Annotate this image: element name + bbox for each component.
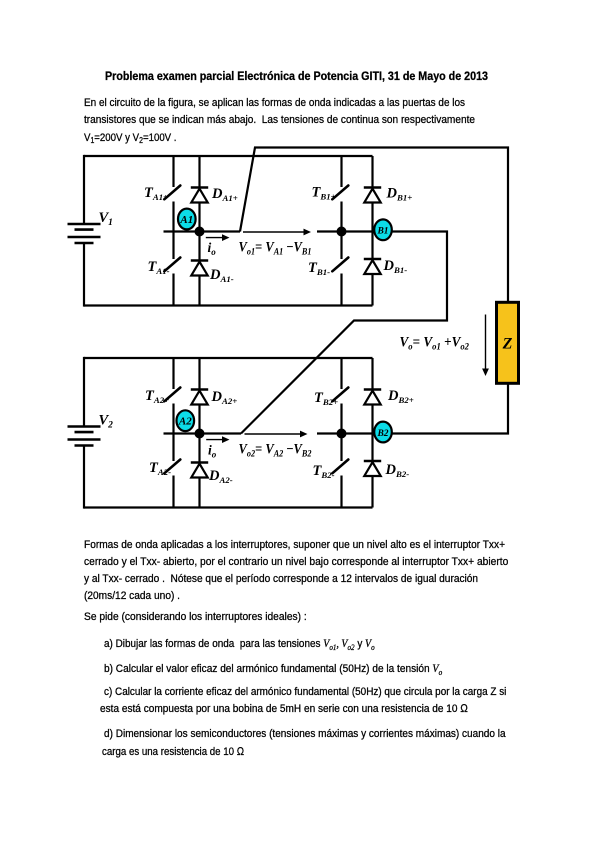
diode D_A1+ <box>191 188 208 203</box>
node A2 <box>177 410 195 431</box>
wire D_A2- lower leg <box>198 478 200 508</box>
node B1 <box>374 219 392 240</box>
label V1 <box>99 210 113 228</box>
svg-text:io: io <box>208 443 217 460</box>
current arrow io bridge 1 <box>206 234 230 241</box>
label Vo2 = VA2 - VB2 <box>239 442 312 460</box>
item c line 1 <box>104 687 506 698</box>
svg-text:DB2-: DB2- <box>385 462 410 479</box>
label T_A1- <box>148 259 170 276</box>
wire T_A2+ upper leg <box>172 358 174 389</box>
wire D_B2- upper leg <box>371 434 373 462</box>
battery V2 <box>68 427 101 446</box>
wire T_B1- lower leg <box>340 274 342 306</box>
diode D_A1- <box>191 261 208 276</box>
diode D_B2+ <box>364 390 381 405</box>
svg-text:TB2+: TB2+ <box>314 390 338 407</box>
svg-text:A2: A2 <box>178 416 192 428</box>
wire D_A1+ upper leg <box>198 156 200 188</box>
item c line 2 <box>100 704 468 715</box>
svg-text:TB1+: TB1+ <box>312 185 336 202</box>
wire output wire B2 left <box>317 432 373 434</box>
svg-text:DA2-: DA2- <box>208 468 233 485</box>
transistor T_A2+ (ideal switch) <box>164 388 180 402</box>
svg-text:V2: V2 <box>99 413 114 431</box>
label i_o bridge 2 <box>208 443 217 460</box>
junction node B2 junction <box>337 429 347 439</box>
se pide line <box>84 612 307 623</box>
node A1 <box>178 209 196 230</box>
junction node B1 junction <box>337 227 347 237</box>
svg-text:Vo1= VA1 −VB1: Vo1= VA1 −VB1 <box>239 240 312 258</box>
wire T_B1+ upper leg <box>340 156 342 187</box>
wire T_A1- upper leg <box>172 232 174 260</box>
svg-text:V1: V1 <box>99 210 113 228</box>
label D_B2- <box>385 462 410 479</box>
label i_o bridge 1 <box>208 240 217 257</box>
wire T_A2- upper leg <box>172 434 174 462</box>
wire top rail bridge 1 <box>84 155 373 157</box>
wire T_B2+ upper leg <box>340 358 342 389</box>
wire D_B1- upper leg <box>371 232 373 260</box>
load Z <box>497 302 519 383</box>
wire left rail lower bridge 2 <box>83 446 85 509</box>
voltage arrow Vo2 <box>245 431 308 438</box>
label V2 <box>99 413 114 431</box>
transistor T_B1+ (ideal switch) <box>332 186 348 200</box>
wire left rail upper bridge 1 <box>83 155 85 225</box>
svg-text:DB2+: DB2+ <box>387 388 414 405</box>
svg-text:DB1+: DB1+ <box>386 186 413 203</box>
wire wire node B2 to load Z <box>391 384 508 434</box>
diode D_A2- <box>191 463 208 478</box>
wire D_B1+ lower leg <box>371 203 373 232</box>
svg-text:Vo= Vo1 +Vo2: Vo= Vo1 +Vo2 <box>400 335 470 353</box>
svg-text:TB2-: TB2- <box>313 463 335 480</box>
junction node A2 junction <box>195 429 205 439</box>
transistor T_B2+ (ideal switch) <box>332 388 348 402</box>
diode D_B1+ <box>364 188 381 203</box>
svg-text:TA1-: TA1- <box>148 259 170 276</box>
junction node A1 junction <box>195 227 205 237</box>
label T_A2+ <box>145 388 169 405</box>
wire D_B2+ lower leg <box>371 405 373 434</box>
label D_A2+ <box>211 389 238 406</box>
voltage arrow Vo1 <box>243 229 311 236</box>
wire D_B2- lower leg <box>371 476 373 508</box>
label T_B2- <box>313 463 335 480</box>
svg-text:DB1-: DB1- <box>383 258 408 275</box>
wire T_A1+ lower leg <box>172 202 174 232</box>
label D_B1+ <box>386 186 413 203</box>
wire T_A2+ lower leg <box>172 404 174 434</box>
wire D_B2+ upper leg <box>371 358 373 390</box>
transistor T_A1+ (ideal switch) <box>164 186 180 200</box>
wire D_A1+ lower leg <box>198 203 200 232</box>
label D_A1+ <box>211 186 238 203</box>
label T_B1- <box>308 260 330 277</box>
wire output wire A2 left <box>164 432 242 434</box>
diode D_B1- <box>364 259 381 274</box>
intro paragraph line 2 <box>84 115 475 126</box>
label D_A1- <box>209 267 234 284</box>
wire top rail bridge 2 <box>84 357 373 359</box>
voltage arrow Vo (down) <box>482 315 489 377</box>
transistor T_B2- (ideal switch) <box>332 460 348 474</box>
svg-text:io: io <box>208 240 217 257</box>
battery V1 <box>68 224 101 243</box>
wire D_A1- upper leg <box>198 232 200 261</box>
svg-text:DA1+: DA1+ <box>211 186 238 203</box>
intro paragraph line 1 <box>84 98 465 109</box>
wire T_B1- upper leg <box>340 232 342 260</box>
intro paragraph line 3 <box>84 133 176 144</box>
node B2 <box>374 422 392 443</box>
wire D_A2- upper leg <box>198 434 200 463</box>
waveform paragraph line 4 <box>84 591 180 602</box>
svg-text:B2: B2 <box>376 429 388 439</box>
wire T_B1+ lower leg <box>340 202 342 232</box>
transistor T_A2- (ideal switch) <box>164 460 180 474</box>
diode D_A2+ <box>191 390 208 405</box>
wire T_B2+ lower leg <box>340 404 342 434</box>
waveform paragraph line 3 <box>84 574 478 585</box>
current arrow io bridge 2 <box>206 436 229 443</box>
svg-text:DA2+: DA2+ <box>211 389 238 406</box>
wire T_A2- lower leg <box>172 476 174 508</box>
svg-text:TA2-: TA2- <box>149 460 171 477</box>
label T_B1+ <box>312 185 336 202</box>
label D_B1- <box>383 258 408 275</box>
item a <box>104 639 375 650</box>
svg-text:TB1-: TB1- <box>308 260 330 277</box>
wire left rail lower bridge 1 <box>83 243 85 307</box>
wire output wire B1 left <box>317 230 373 232</box>
wire bottom rail bridge 2 <box>84 506 373 508</box>
wire D_A1- lower leg <box>198 276 200 306</box>
svg-text:Vo2= VA2 −VB2: Vo2= VA2 −VB2 <box>239 442 312 460</box>
wire T_B2- lower leg <box>340 476 342 508</box>
wire T_A1- lower leg <box>172 274 174 306</box>
label T_B2+ <box>314 390 338 407</box>
wire T_B2- upper leg <box>340 434 342 462</box>
transistor T_B1- (ideal switch) <box>332 258 348 272</box>
waveform paragraph line 1 <box>84 540 505 551</box>
wire wire node B1 to node A2 <box>241 232 447 434</box>
item d line 1 <box>104 729 506 740</box>
label T_A2- <box>149 460 171 477</box>
svg-text:TA2+: TA2+ <box>145 388 169 405</box>
wire D_A2+ lower leg <box>198 405 200 434</box>
label D_B2+ <box>387 388 414 405</box>
svg-text:Z: Z <box>502 336 513 353</box>
wire bottom rail bridge 1 <box>84 304 373 306</box>
svg-text:B1: B1 <box>376 227 388 237</box>
wire left rail upper bridge 2 <box>83 357 85 428</box>
svg-text:TA1+: TA1+ <box>144 185 168 202</box>
label Vo = Vo1 + Vo2 <box>400 335 470 353</box>
title <box>105 71 488 83</box>
label D_A2- <box>208 468 233 485</box>
item b <box>104 664 442 675</box>
wire D_A2+ upper leg <box>198 358 200 390</box>
wire D_B1- lower leg <box>371 274 373 306</box>
svg-text:A1: A1 <box>179 214 193 226</box>
transistor T_A1- (ideal switch) <box>164 258 180 272</box>
wire wire node A1 to top route <box>240 148 508 303</box>
wire T_A1+ upper leg <box>172 156 174 187</box>
label T_A1+ <box>144 185 168 202</box>
item d line 2 <box>102 747 244 758</box>
waveform paragraph line 2 <box>84 557 508 568</box>
label Vo1 = VA1 - VB1 <box>239 240 312 258</box>
wire output wire A1 left <box>164 230 241 232</box>
svg-text:DA1-: DA1- <box>209 267 234 284</box>
wire D_B1+ upper leg <box>371 156 373 188</box>
diode D_B2- <box>364 461 381 476</box>
